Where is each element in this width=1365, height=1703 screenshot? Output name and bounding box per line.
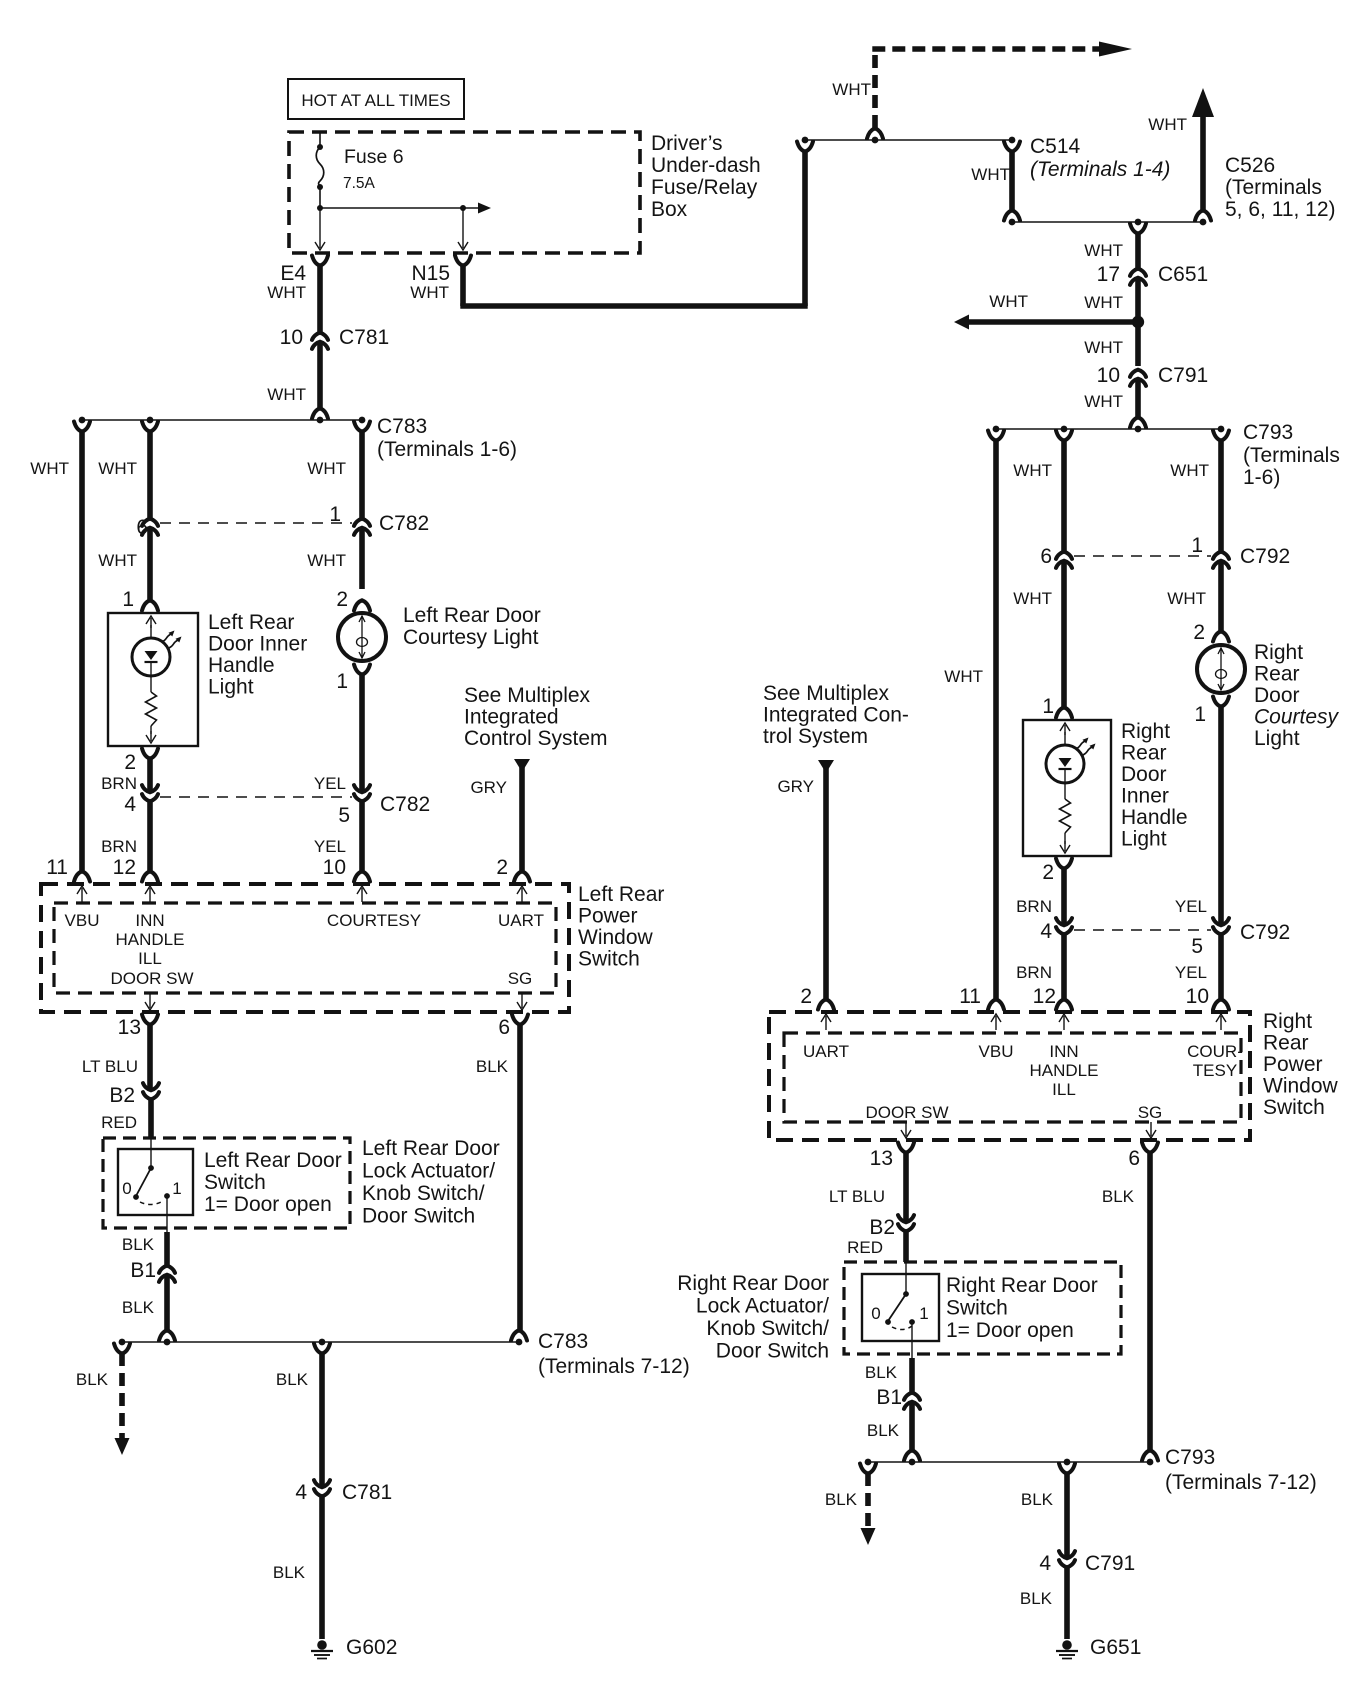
svg-text:DOOR SW: DOOR SW: [865, 1103, 948, 1122]
svg-text:YEL: YEL: [1175, 963, 1207, 982]
svg-text:N15: N15: [411, 262, 450, 285]
svg-text:2: 2: [1042, 861, 1054, 884]
svg-text:Power: Power: [578, 905, 638, 928]
svg-text:7.5A: 7.5A: [343, 175, 376, 192]
svg-text:Rear: Rear: [1121, 742, 1167, 765]
svg-text:Fuse 6: Fuse 6: [344, 146, 404, 168]
svg-text:HANDLE: HANDLE: [116, 930, 185, 949]
svg-text:WHT: WHT: [98, 459, 137, 478]
svg-text:C526: C526: [1225, 154, 1275, 177]
svg-text:BLK: BLK: [476, 1057, 509, 1076]
svg-text:YEL: YEL: [1175, 897, 1207, 916]
svg-text:WHT: WHT: [1148, 115, 1187, 134]
svg-text:11: 11: [959, 985, 981, 1008]
svg-text:10: 10: [280, 326, 303, 349]
svg-text:Right Rear Door: Right Rear Door: [677, 1272, 829, 1295]
svg-text:WHT: WHT: [1013, 461, 1052, 480]
svg-text:4: 4: [1039, 1552, 1051, 1575]
svg-text:Door Switch: Door Switch: [362, 1205, 475, 1228]
svg-text:Switch: Switch: [1263, 1096, 1325, 1119]
svg-text:Switch: Switch: [204, 1171, 266, 1194]
svg-text:C781: C781: [339, 326, 389, 349]
svg-text:11: 11: [46, 856, 68, 879]
svg-text:YEL: YEL: [314, 837, 346, 856]
svg-text:1: 1: [122, 588, 134, 611]
svg-text:Door: Door: [1254, 684, 1300, 707]
svg-text:C793: C793: [1165, 1446, 1215, 1469]
svg-text:(Terminals: (Terminals: [1225, 176, 1322, 199]
svg-text:13: 13: [870, 1147, 893, 1170]
svg-text:2: 2: [1193, 621, 1205, 644]
svg-text:(Terminals 1-4): (Terminals 1-4): [1030, 158, 1170, 181]
svg-text:2: 2: [496, 856, 508, 879]
svg-text:Control System: Control System: [464, 727, 608, 750]
svg-text:4: 4: [124, 793, 136, 816]
svg-text:Handle: Handle: [1121, 806, 1188, 829]
svg-text:Door Inner: Door Inner: [208, 633, 307, 656]
svg-text:10: 10: [1186, 985, 1209, 1008]
svg-text:G602: G602: [346, 1636, 397, 1659]
svg-text:trol System: trol System: [763, 725, 868, 748]
svg-text:Light: Light: [1254, 727, 1300, 750]
svg-text:1: 1: [1194, 703, 1206, 726]
svg-text:BLK: BLK: [1021, 1490, 1054, 1509]
svg-text:Integrated Con-: Integrated Con-: [763, 704, 909, 727]
svg-text:BLK: BLK: [76, 1370, 109, 1389]
svg-text:C792: C792: [1240, 921, 1290, 944]
svg-text:WHT: WHT: [307, 459, 346, 478]
svg-text:SG: SG: [1138, 1103, 1163, 1122]
svg-text:2: 2: [800, 985, 812, 1008]
svg-text:C783: C783: [377, 415, 427, 438]
svg-text:2: 2: [124, 751, 136, 774]
svg-text:UART: UART: [803, 1042, 849, 1061]
svg-text:1-6): 1-6): [1243, 466, 1280, 489]
svg-text:6: 6: [1040, 545, 1052, 568]
svg-text:Box: Box: [651, 198, 688, 221]
svg-text:Courtesy: Courtesy: [1254, 706, 1340, 729]
svg-text:Left Rear: Left Rear: [578, 883, 664, 906]
svg-text:WHT: WHT: [971, 165, 1010, 184]
svg-text:B1: B1: [130, 1259, 156, 1282]
svg-text:BRN: BRN: [101, 774, 137, 793]
svg-text:Right Rear Door: Right Rear Door: [946, 1274, 1098, 1297]
svg-text:4: 4: [1040, 920, 1052, 943]
svg-text:1: 1: [1042, 695, 1054, 718]
svg-text:Rear: Rear: [1254, 663, 1300, 686]
svg-text:B2: B2: [109, 1084, 135, 1107]
svg-text:VBU: VBU: [65, 911, 100, 930]
svg-text:BLK: BLK: [867, 1421, 900, 1440]
svg-text:Rear: Rear: [1263, 1032, 1309, 1055]
svg-text:DOOR SW: DOOR SW: [110, 969, 193, 988]
svg-text:See Multiplex: See Multiplex: [464, 684, 591, 707]
svg-text:5: 5: [1191, 935, 1203, 958]
svg-text:HOT AT ALL TIMES: HOT AT ALL TIMES: [301, 91, 450, 110]
svg-text:GRY: GRY: [470, 778, 507, 797]
svg-text:1: 1: [172, 1179, 181, 1198]
svg-text:WHT: WHT: [267, 283, 306, 302]
svg-text:G651: G651: [1090, 1636, 1141, 1659]
svg-text:Light: Light: [1121, 828, 1167, 851]
svg-text:E4: E4: [280, 262, 306, 285]
svg-text:Lock Actuator/: Lock Actuator/: [362, 1160, 495, 1183]
svg-text:Switch: Switch: [946, 1297, 1008, 1320]
svg-text:12: 12: [1033, 985, 1056, 1008]
svg-text:(Terminals 7-12): (Terminals 7-12): [538, 1355, 690, 1378]
svg-text:HANDLE: HANDLE: [1030, 1061, 1099, 1080]
svg-text:WHT: WHT: [1170, 461, 1209, 480]
svg-text:WHT: WHT: [98, 551, 137, 570]
svg-text:WHT: WHT: [1167, 589, 1206, 608]
svg-text:BLK: BLK: [276, 1370, 309, 1389]
svg-text:(Terminals 1-6): (Terminals 1-6): [377, 438, 517, 461]
svg-text:Handle: Handle: [208, 654, 275, 677]
svg-text:10: 10: [323, 856, 346, 879]
svg-text:6: 6: [1128, 1147, 1140, 1170]
svg-text:BLK: BLK: [122, 1235, 155, 1254]
svg-text:BLK: BLK: [1020, 1589, 1053, 1608]
svg-text:Inner: Inner: [1121, 785, 1169, 808]
svg-text:C782: C782: [380, 793, 430, 816]
svg-text:C782: C782: [379, 512, 429, 535]
svg-text:BLK: BLK: [122, 1298, 155, 1317]
svg-text:1: 1: [1191, 534, 1203, 557]
svg-text:Under-dash: Under-dash: [651, 154, 761, 177]
svg-text:WHT: WHT: [944, 667, 983, 686]
svg-text:UART: UART: [498, 911, 544, 930]
svg-text:WHT: WHT: [267, 385, 306, 404]
svg-text:LT BLU: LT BLU: [829, 1187, 885, 1206]
svg-text:Lock Actuator/: Lock Actuator/: [696, 1295, 829, 1318]
svg-text:C792: C792: [1240, 545, 1290, 568]
svg-text:BLK: BLK: [273, 1563, 306, 1582]
svg-text:YEL: YEL: [314, 774, 346, 793]
svg-text:ILL: ILL: [138, 949, 162, 968]
svg-text:5, 6, 11, 12): 5, 6, 11, 12): [1225, 198, 1336, 221]
svg-text:Right: Right: [1121, 720, 1170, 743]
svg-text:COURTESY: COURTESY: [327, 911, 421, 930]
svg-text:C651: C651: [1158, 263, 1208, 286]
svg-text:C781: C781: [342, 1481, 392, 1504]
svg-text:Driver’s: Driver’s: [651, 132, 723, 155]
svg-text:Left Rear Door: Left Rear Door: [362, 1137, 500, 1160]
svg-text:WHT: WHT: [1084, 293, 1123, 312]
svg-text:6: 6: [498, 1016, 510, 1039]
svg-text:C514: C514: [1030, 135, 1081, 158]
svg-text:Door: Door: [1121, 763, 1167, 786]
svg-text:1: 1: [329, 503, 341, 526]
svg-text:1= Door open: 1= Door open: [204, 1193, 332, 1216]
svg-text:12: 12: [113, 856, 136, 879]
svg-text:See Multiplex: See Multiplex: [763, 682, 890, 705]
svg-text:0: 0: [871, 1304, 880, 1323]
svg-text:WHT: WHT: [989, 292, 1028, 311]
svg-text:TESY: TESY: [1193, 1061, 1237, 1080]
svg-text:ILL: ILL: [1052, 1080, 1076, 1099]
svg-text:RED: RED: [101, 1113, 137, 1132]
svg-text:WHT: WHT: [1084, 241, 1123, 260]
svg-text:GRY: GRY: [777, 777, 814, 796]
svg-text:B1: B1: [876, 1386, 902, 1409]
svg-text:Power: Power: [1263, 1053, 1323, 1076]
svg-text:2: 2: [336, 588, 348, 611]
svg-text:C793: C793: [1243, 421, 1293, 444]
svg-text:BRN: BRN: [1016, 963, 1052, 982]
svg-text:VBU: VBU: [979, 1042, 1014, 1061]
svg-text:17: 17: [1097, 263, 1120, 286]
svg-text:4: 4: [295, 1481, 307, 1504]
svg-text:Window: Window: [578, 926, 654, 949]
svg-text:Courtesy Light: Courtesy Light: [403, 626, 539, 649]
svg-text:WHT: WHT: [307, 551, 346, 570]
svg-text:Light: Light: [208, 676, 254, 699]
svg-text:BLK: BLK: [1102, 1187, 1135, 1206]
svg-text:RED: RED: [847, 1238, 883, 1257]
svg-text:Left Rear Door: Left Rear Door: [204, 1149, 342, 1172]
svg-text:LT BLU: LT BLU: [82, 1057, 138, 1076]
svg-text:Right: Right: [1263, 1010, 1312, 1033]
svg-text:0: 0: [122, 1179, 131, 1198]
svg-text:BRN: BRN: [1016, 897, 1052, 916]
svg-text:INN: INN: [1049, 1042, 1078, 1061]
svg-text:Switch: Switch: [578, 948, 640, 971]
svg-text:Integrated: Integrated: [464, 706, 559, 729]
svg-text:1: 1: [336, 670, 348, 693]
svg-text:WHT: WHT: [1013, 589, 1052, 608]
svg-text:13: 13: [118, 1016, 141, 1039]
svg-text:BRN: BRN: [101, 837, 137, 856]
svg-text:Knob Switch/: Knob Switch/: [706, 1317, 829, 1340]
svg-text:C791: C791: [1158, 364, 1208, 387]
svg-text:(Terminals: (Terminals: [1243, 444, 1340, 467]
svg-text:WHT: WHT: [1084, 338, 1123, 357]
svg-text:BLK: BLK: [825, 1490, 858, 1509]
svg-text:WHT: WHT: [30, 459, 69, 478]
svg-text:INN: INN: [135, 911, 164, 930]
svg-text:BLK: BLK: [865, 1363, 898, 1382]
svg-text:Left Rear Door: Left Rear Door: [403, 604, 541, 627]
svg-text:WHT: WHT: [832, 80, 871, 99]
svg-text:WHT: WHT: [410, 283, 449, 302]
svg-text:WHT: WHT: [1084, 392, 1123, 411]
svg-text:Door Switch: Door Switch: [716, 1340, 829, 1363]
svg-text:COUR-: COUR-: [1187, 1042, 1243, 1061]
svg-text:Fuse/Relay: Fuse/Relay: [651, 176, 758, 199]
svg-text:10: 10: [1097, 364, 1120, 387]
svg-text:Left Rear: Left Rear: [208, 611, 294, 634]
svg-text:1= Door open: 1= Door open: [946, 1319, 1074, 1342]
svg-text:Knob Switch/: Knob Switch/: [362, 1182, 485, 1205]
svg-text:5: 5: [338, 804, 350, 827]
svg-text:C791: C791: [1085, 1552, 1135, 1575]
svg-text:1: 1: [919, 1304, 928, 1323]
svg-text:Right: Right: [1254, 641, 1303, 664]
svg-text:(Terminals 7-12): (Terminals 7-12): [1165, 1471, 1317, 1494]
svg-text:C783: C783: [538, 1330, 588, 1353]
svg-text:SG: SG: [508, 969, 533, 988]
svg-text:6: 6: [136, 516, 148, 539]
svg-text:Window: Window: [1263, 1075, 1339, 1098]
svg-text:B2: B2: [869, 1216, 895, 1239]
